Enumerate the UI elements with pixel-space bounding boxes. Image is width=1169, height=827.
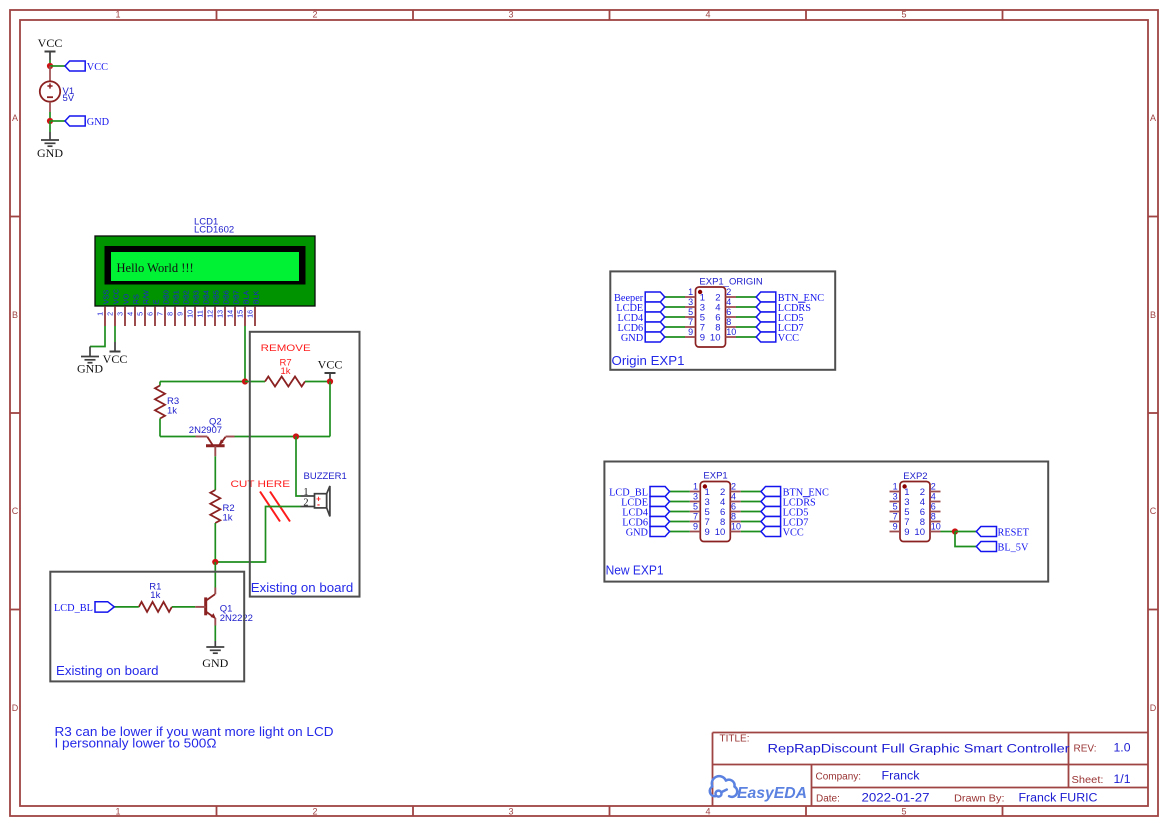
- svg-text:VCC: VCC: [87, 62, 108, 73]
- net flag LCD4: [622, 507, 669, 519]
- LCD1 pin numbers 1-16: [95, 310, 254, 318]
- buzzer BUZZER1 pin 2: [301, 506, 315, 508]
- svg-text:1: 1: [115, 10, 120, 20]
- wire: [741, 491, 761, 493]
- svg-text:5: 5: [135, 312, 144, 316]
- svg-text:7: 7: [155, 312, 164, 316]
- svg-text:10: 10: [931, 522, 941, 532]
- svg-text:2: 2: [105, 312, 114, 316]
- svg-text:Company:: Company:: [816, 771, 862, 782]
- svg-text:2: 2: [731, 482, 736, 492]
- wire: [114, 326, 116, 342]
- svg-text:VCC: VCC: [38, 36, 63, 50]
- svg-text:4: 4: [705, 807, 710, 817]
- resistor R2: [210, 456, 220, 562]
- junction node GND: [47, 118, 53, 124]
- svg-text:C: C: [1150, 506, 1157, 516]
- svg-text:10: 10: [726, 327, 736, 337]
- voltage source V1 pin 2: [49, 102, 51, 112]
- svg-text:1k: 1k: [150, 590, 160, 601]
- wire: [49, 60, 51, 66]
- net flag GND: [621, 332, 665, 344]
- power symbol VCC (R7): [318, 358, 343, 381]
- net flag LCDRS: [761, 497, 816, 509]
- voltage source V1: [40, 81, 60, 101]
- svg-text:REMOVE: REMOVE: [261, 343, 311, 354]
- svg-text:9: 9: [705, 527, 710, 538]
- svg-text:11: 11: [195, 310, 204, 317]
- transistor Q1: [195, 588, 216, 626]
- net flag GND: [626, 527, 670, 539]
- svg-text:2: 2: [303, 497, 308, 508]
- box: REMOVE / Existing on board (right): [250, 332, 360, 597]
- net flag LCD6: [622, 517, 669, 529]
- svg-text:7: 7: [893, 512, 898, 522]
- junction: [212, 559, 218, 565]
- net flag LCDE: [616, 302, 664, 314]
- EXP1 pin numbers (inside): [705, 487, 726, 538]
- ground symbol GND (Q1): [202, 641, 228, 670]
- svg-text:6: 6: [726, 307, 731, 317]
- wire: [955, 532, 976, 547]
- net flag LCD7: [761, 517, 808, 529]
- EXP1 external pin numbers: [693, 482, 741, 532]
- svg-text:BLK: BLK: [252, 290, 261, 304]
- cut mark: [260, 492, 290, 522]
- wire: [736, 316, 756, 318]
- net flag LCD5: [756, 312, 803, 324]
- junction node VCC: [47, 63, 53, 69]
- svg-text:DB7: DB7: [232, 290, 241, 304]
- svg-text:EasyEDA: EasyEDA: [737, 785, 807, 802]
- wire: [665, 296, 685, 298]
- svg-text:9: 9: [693, 522, 698, 532]
- net flag Beeper: [614, 292, 665, 304]
- svg-text:10: 10: [710, 333, 721, 344]
- wire: [670, 511, 690, 513]
- buzzer BUZZER1 pin 1: [301, 495, 315, 497]
- wire: [244, 326, 246, 382]
- svg-text:4: 4: [705, 10, 710, 20]
- wire: [670, 501, 690, 503]
- box: Origin EXP1: [610, 271, 835, 369]
- svg-text:10: 10: [914, 527, 925, 538]
- svg-text:B: B: [1150, 310, 1156, 320]
- svg-text:6: 6: [931, 502, 936, 512]
- wire: [90, 326, 105, 347]
- svg-text:6: 6: [731, 502, 736, 512]
- svg-text:8: 8: [165, 312, 174, 316]
- svg-text:VCC: VCC: [783, 527, 804, 538]
- wire: [49, 121, 51, 132]
- svg-text:GND: GND: [202, 656, 228, 670]
- svg-text:VO: VO: [122, 293, 131, 304]
- svg-text:R/W: R/W: [142, 290, 151, 304]
- svg-text:I personnaly lower to 500Ω: I personnaly lower to 500Ω: [55, 737, 217, 751]
- svg-text:1.0: 1.0: [1114, 743, 1131, 755]
- svg-text:A: A: [12, 113, 18, 123]
- ground symbol GND (LCD pin 1): [77, 347, 103, 376]
- svg-text:B: B: [12, 310, 18, 320]
- svg-text:Hello World !!!: Hello World !!!: [117, 261, 194, 275]
- svg-text:DB1: DB1: [172, 290, 181, 304]
- svg-text:12: 12: [205, 310, 214, 318]
- svg-text:2: 2: [312, 807, 317, 817]
- voltage source V1 pin 1: [49, 66, 51, 81]
- wire: [670, 521, 690, 523]
- resistor R3: [155, 382, 165, 437]
- svg-text:GND: GND: [77, 362, 103, 376]
- svg-text:9: 9: [175, 312, 184, 316]
- connector EXP1: [700, 482, 730, 542]
- svg-text:2: 2: [312, 10, 317, 20]
- wire: [50, 120, 65, 122]
- svg-text:8: 8: [726, 317, 731, 327]
- net flag LCD_BL: [54, 602, 114, 614]
- svg-text:1: 1: [893, 482, 898, 492]
- svg-text:1: 1: [693, 482, 698, 492]
- wire: [670, 531, 690, 533]
- net flag VCC: [761, 527, 804, 539]
- svg-text:-: -: [317, 500, 320, 510]
- resistor R1: [139, 602, 172, 612]
- svg-text:LCD_BL: LCD_BL: [54, 603, 93, 614]
- svg-text:BUZZER1: BUZZER1: [304, 471, 347, 482]
- svg-text:3: 3: [508, 10, 513, 20]
- svg-text:E: E: [152, 299, 161, 304]
- wire: [214, 562, 216, 588]
- title block: [710, 733, 1148, 807]
- junction: [952, 528, 958, 534]
- svg-text:GND: GND: [87, 117, 110, 128]
- wire: [665, 316, 685, 318]
- svg-text:VCC: VCC: [112, 289, 121, 304]
- net flag GND: [65, 116, 110, 128]
- net flag LCD_BL: [609, 487, 670, 499]
- connector EXP1_ORIGIN: [696, 287, 726, 347]
- EXP1 pins: [690, 492, 741, 532]
- svg-text:Drawn By:: Drawn By:: [954, 793, 1005, 804]
- wire: [941, 531, 956, 533]
- svg-text:5: 5: [893, 502, 898, 512]
- EXP1_ORIGIN external pin numbers: [688, 287, 736, 337]
- wire: [329, 382, 331, 437]
- net flag BL_5V: [976, 542, 1029, 554]
- svg-text:1: 1: [688, 287, 693, 297]
- wire: [741, 531, 761, 533]
- net flag LCDRS: [756, 302, 811, 314]
- junction: [327, 378, 333, 384]
- svg-text:9: 9: [700, 333, 705, 344]
- net flag LCD4: [617, 312, 664, 324]
- wire: [215, 507, 300, 563]
- svg-text:Existing on board: Existing on board: [251, 581, 354, 595]
- svg-text:1: 1: [95, 312, 104, 316]
- svg-text:1k: 1k: [167, 405, 177, 416]
- wire: [305, 381, 330, 383]
- svg-text:2022-01-27: 2022-01-27: [862, 792, 930, 804]
- svg-text:D: D: [1150, 703, 1157, 713]
- junction: [242, 378, 248, 384]
- transistor Q2: [196, 437, 235, 457]
- svg-text:Origin EXP1: Origin EXP1: [612, 354, 685, 368]
- svg-text:7: 7: [693, 512, 698, 522]
- LCD1 pin names: [102, 289, 261, 304]
- svg-text:5: 5: [901, 10, 906, 20]
- svg-text:9: 9: [893, 522, 898, 532]
- svg-text:TITLE:: TITLE:: [720, 734, 750, 745]
- net flag VCC: [65, 61, 108, 73]
- svg-text:10: 10: [185, 310, 194, 318]
- svg-text:5: 5: [901, 807, 906, 817]
- svg-text:10: 10: [731, 522, 741, 532]
- wire: [296, 437, 301, 497]
- net flag BTN_ENC: [756, 292, 824, 304]
- junction: [293, 433, 299, 439]
- wire: [955, 531, 976, 533]
- svg-text:3: 3: [508, 807, 513, 817]
- wire: [172, 606, 195, 608]
- svg-text:5: 5: [688, 307, 693, 317]
- svg-text:4: 4: [731, 492, 736, 502]
- resistor R7: [265, 377, 305, 387]
- svg-text:RepRapDiscount Full Graphic Sm: RepRapDiscount Full Graphic Smart Contro…: [768, 744, 1070, 756]
- svg-text:13: 13: [215, 310, 224, 318]
- svg-text:Sheet:: Sheet:: [1072, 775, 1104, 786]
- svg-text:RS: RS: [132, 294, 141, 304]
- EXP1_ORIGIN pins: [685, 297, 736, 337]
- svg-text:9: 9: [688, 327, 693, 337]
- svg-text:9: 9: [904, 527, 909, 538]
- wire: [736, 296, 756, 298]
- EXP2 external pin numbers: [893, 482, 941, 532]
- svg-text:3: 3: [115, 312, 124, 316]
- svg-text:VCC: VCC: [778, 333, 799, 344]
- svg-text:2N2222: 2N2222: [220, 613, 253, 624]
- wire: [665, 306, 685, 308]
- power symbol VCC (LCD pin 2): [103, 342, 128, 366]
- svg-text:VSS: VSS: [102, 290, 111, 305]
- svg-text:1/1: 1/1: [1114, 774, 1131, 786]
- svg-text:D: D: [12, 703, 19, 713]
- net flag BTN_ENC: [761, 487, 829, 499]
- svg-text:VCC: VCC: [103, 352, 128, 366]
- svg-text:CUT HERE: CUT HERE: [231, 479, 291, 490]
- svg-text:GND: GND: [626, 527, 649, 538]
- svg-text:3: 3: [688, 297, 693, 307]
- svg-text:1: 1: [115, 807, 120, 817]
- svg-text:BLA: BLA: [242, 290, 251, 304]
- wire: [665, 326, 685, 328]
- svg-text:C: C: [12, 506, 19, 516]
- svg-text:14: 14: [225, 310, 234, 318]
- wire: [736, 326, 756, 328]
- svg-text:Franck FURIC: Franck FURIC: [1019, 792, 1098, 804]
- svg-text:GND: GND: [621, 333, 644, 344]
- wire: [665, 336, 685, 338]
- wire: [736, 306, 756, 308]
- svg-text:EXP1_ORIGIN: EXP1_ORIGIN: [699, 276, 762, 287]
- wire: [235, 436, 331, 438]
- LCD1 pins: [105, 307, 255, 326]
- svg-text:BL_5V: BL_5V: [998, 542, 1029, 553]
- svg-text:4: 4: [726, 297, 731, 307]
- net flag LCD5: [761, 507, 808, 519]
- EXP2 pin numbers (inside): [904, 487, 925, 538]
- svg-text:DB0: DB0: [162, 290, 171, 304]
- EXP1_ORIGIN pin numbers (inside): [700, 293, 721, 344]
- svg-text:1k: 1k: [281, 366, 291, 377]
- svg-text:DB2: DB2: [182, 290, 191, 304]
- wire: [114, 606, 139, 608]
- wire: [741, 511, 761, 513]
- wire: [736, 336, 756, 338]
- svg-text:3: 3: [893, 492, 898, 502]
- svg-text:New EXP1: New EXP1: [606, 564, 664, 578]
- svg-text:DB4: DB4: [202, 290, 211, 304]
- svg-text:REV:: REV:: [1074, 744, 1097, 755]
- svg-text:EXP2: EXP2: [903, 471, 927, 482]
- svg-text:3: 3: [693, 492, 698, 502]
- svg-text:GND: GND: [37, 146, 63, 160]
- svg-text:8: 8: [931, 512, 936, 522]
- svg-text:Franck: Franck: [882, 770, 920, 782]
- svg-text:1k: 1k: [223, 512, 233, 523]
- svg-text:DB6: DB6: [222, 290, 231, 304]
- note text: [55, 725, 334, 751]
- svg-text:VCC: VCC: [318, 358, 343, 372]
- svg-text:6: 6: [145, 312, 154, 316]
- svg-text:LCD1602: LCD1602: [194, 225, 234, 236]
- wire: [741, 521, 761, 523]
- ground symbol GND: [37, 132, 63, 160]
- wire: [160, 436, 196, 438]
- svg-text:5V: 5V: [63, 93, 75, 104]
- wire: [245, 381, 265, 383]
- wire: [160, 381, 245, 383]
- svg-text:Date:: Date:: [816, 793, 840, 804]
- svg-text:2: 2: [931, 482, 936, 492]
- box: New EXP1: [604, 462, 1048, 582]
- net flag LCD6: [617, 322, 664, 334]
- svg-text:7: 7: [688, 317, 693, 327]
- wire: [214, 626, 216, 642]
- svg-text:10: 10: [715, 527, 726, 538]
- net flag LCDE: [621, 497, 669, 509]
- wire: [670, 491, 690, 493]
- svg-text:A: A: [1150, 113, 1156, 123]
- wire: [741, 501, 761, 503]
- svg-text:15: 15: [235, 310, 244, 318]
- wire: [49, 112, 51, 121]
- net flag VCC: [756, 332, 799, 344]
- svg-text:2: 2: [726, 287, 731, 297]
- power symbol VCC: [38, 36, 63, 60]
- svg-text:RESET: RESET: [998, 527, 1030, 538]
- svg-text:8: 8: [731, 512, 736, 522]
- wire: [50, 65, 65, 67]
- net flag LCD7: [756, 322, 803, 334]
- svg-text:DB5: DB5: [212, 290, 221, 304]
- EXP2 pins: [890, 492, 941, 532]
- svg-text:EXP1: EXP1: [703, 470, 727, 481]
- buzzer BUZZER1: [315, 486, 330, 516]
- net flag RESET: [976, 527, 1029, 539]
- svg-text:DB3: DB3: [192, 290, 201, 304]
- svg-text:Existing on board: Existing on board: [56, 664, 159, 678]
- LCD display LCD1: [95, 236, 315, 306]
- box: Existing on board (left): [50, 572, 244, 682]
- svg-text:2N2907: 2N2907: [189, 425, 222, 436]
- svg-text:16: 16: [245, 310, 254, 318]
- svg-text:4: 4: [931, 492, 936, 502]
- connector EXP2: [900, 482, 930, 542]
- svg-text:5: 5: [693, 502, 698, 512]
- svg-text:4: 4: [125, 312, 134, 316]
